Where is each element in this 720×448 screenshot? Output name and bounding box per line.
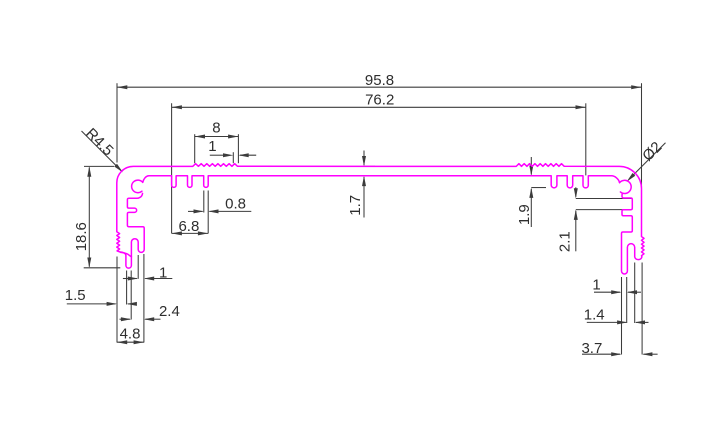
dim 0.8 tail-left	[188, 210, 203, 212]
dim 76.2 ext-right	[585, 103, 587, 175]
dim 8 line	[195, 136, 239, 138]
arrowhead 12	[87, 166, 91, 176]
arrowhead 9	[208, 209, 218, 213]
dim 1 tail-right	[240, 154, 256, 156]
dim 2.1 ref-bottom	[576, 209, 630, 211]
svg-text:6.8: 6.8	[178, 218, 199, 235]
arrowhead 24	[107, 302, 117, 306]
dim 1.7 tick-top	[364, 165, 375, 167]
svg-text:1.5: 1.5	[65, 287, 86, 304]
svg-text:1: 1	[592, 276, 600, 293]
arrowhead 30	[611, 290, 621, 294]
dim 2.1 ref-top	[576, 198, 633, 200]
arrowhead 25	[127, 302, 137, 306]
arrowhead 5	[228, 135, 238, 139]
dim 0.8 ext-right	[207, 191, 209, 234]
dim 8 ext-left	[194, 134, 196, 163]
arrowhead 20	[114, 164, 123, 173]
dim 2.1 line-down	[575, 211, 577, 252]
arrowhead 15	[362, 176, 366, 186]
arrowhead 18	[574, 188, 578, 198]
svg-text:18.6: 18.6	[73, 222, 90, 251]
dim 1 ext	[232, 152, 234, 163]
svg-text:0.8: 0.8	[225, 196, 246, 213]
dim 1.9 line-up	[530, 157, 532, 175]
svg-text:1: 1	[159, 264, 167, 281]
arrowhead 35	[642, 352, 652, 356]
dim 8 ext-right	[237, 134, 239, 163]
dim 95.8 ext-right	[641, 83, 643, 186]
dim 0.8 tail-right	[209, 210, 251, 212]
svg-text:8: 8	[212, 120, 220, 137]
arrowhead 16	[529, 166, 533, 176]
svg-text:2.4: 2.4	[159, 303, 180, 320]
ext left-leg c	[130, 271, 132, 320]
svg-text:4.8: 4.8	[120, 325, 141, 342]
arrowhead 26	[121, 317, 131, 321]
dim 95.8 line	[117, 86, 642, 88]
leader diameter-2	[630, 143, 665, 178]
arrowhead 6	[223, 153, 233, 157]
ext right-leg c	[634, 263, 636, 324]
dim 3.7 tail-left	[582, 353, 620, 355]
dim 1 left-bottom tail-left	[123, 278, 137, 280]
dim 1.5 tail-right	[128, 303, 136, 305]
profile inner ceiling with fins	[143, 176, 620, 188]
arrowhead 7	[238, 153, 248, 157]
arrowhead 22	[128, 277, 138, 281]
dim 1.7 line-down	[363, 177, 365, 218]
dim 1 tail-left	[210, 154, 225, 156]
ext left-leg e	[137, 255, 139, 279]
dim 18.6 ref-top	[84, 165, 114, 167]
arrowhead 3	[576, 105, 586, 109]
ext right-leg a	[621, 277, 623, 355]
arrowhead 28	[117, 340, 127, 344]
dim 2.4 tail-left	[120, 318, 130, 320]
dim 0.8 ext-left	[203, 191, 205, 213]
ext right-leg d	[641, 263, 643, 355]
svg-text:95.8: 95.8	[365, 72, 394, 89]
svg-text:1.4: 1.4	[584, 307, 605, 324]
dim 2.4 tail-right	[145, 318, 160, 320]
arrowhead 23	[144, 277, 154, 281]
dim 1.5 tail-left	[67, 303, 116, 305]
arrowhead 19	[574, 210, 578, 220]
arrowhead 34	[611, 352, 621, 356]
dim 76.2 line	[172, 106, 586, 108]
dim 1 left-bottom tail-right	[145, 278, 172, 280]
dim 18.6 ref-bottom	[84, 267, 121, 269]
arrowhead 29	[134, 340, 144, 344]
arrowhead 13	[87, 258, 91, 268]
dim 3.7 tail-right	[643, 353, 657, 355]
arrowhead 10	[172, 231, 182, 235]
dim 1.4 tail-right	[636, 321, 649, 323]
arrowhead 2	[172, 105, 182, 109]
dim 95.8 ext-left	[116, 83, 118, 162]
dim 18.6 line	[88, 167, 90, 266]
dim 1 right-bottom tail-left	[594, 291, 620, 293]
leader R4.5	[82, 131, 123, 172]
dim 1.9 line-down	[530, 189, 532, 227]
dim 1.7 line-up	[363, 151, 365, 166]
dim 4.8 line	[117, 341, 144, 343]
svg-text:1: 1	[208, 138, 216, 155]
ext left-leg b	[126, 271, 128, 305]
svg-text:1.7: 1.7	[347, 195, 364, 216]
arrowhead 33	[635, 320, 645, 324]
arrowhead 8	[194, 209, 204, 213]
dim 1.4 tail-left	[587, 321, 626, 323]
arrowhead 11	[198, 231, 208, 235]
dim 76.2 ext-left	[171, 103, 173, 233]
arrowhead 0	[117, 85, 127, 89]
svg-text:3.7: 3.7	[581, 340, 602, 357]
left skirt inner jog	[121, 252, 132, 257]
arrowhead 1	[631, 85, 641, 89]
svg-text:76.2: 76.2	[365, 92, 394, 109]
svg-text:1.9: 1.9	[516, 204, 533, 225]
arrowhead 31	[627, 290, 637, 294]
arrowhead 21	[627, 173, 636, 182]
ext left-leg d	[143, 254, 145, 343]
arrowhead 32	[617, 320, 627, 324]
dim 6.8 line	[172, 232, 209, 234]
screw boss left	[132, 180, 143, 193]
arrowhead 17	[529, 188, 533, 198]
arrowhead 14	[362, 156, 366, 166]
dim 1.9 tick	[531, 187, 546, 189]
dim 2.1 line-up	[575, 187, 577, 197]
arrowhead 27	[144, 317, 154, 321]
arrowhead 4	[195, 135, 205, 139]
dim 1 right-bottom tail-right	[628, 291, 641, 293]
ext left-leg a	[116, 257, 118, 343]
screw boss right	[620, 180, 632, 193]
svg-text:2.1: 2.1	[557, 231, 574, 252]
profile main outline	[117, 164, 644, 274]
ext right-leg b	[626, 277, 628, 323]
dim 1.7 tick-bottom	[364, 175, 376, 177]
